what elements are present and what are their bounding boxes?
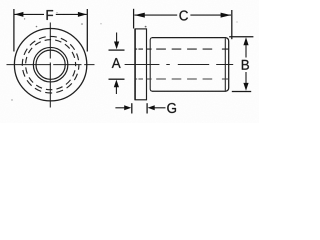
dimension B shaft bottom segment with down arrowhead	[245, 72, 247, 85]
side view flange	[135, 29, 146, 100]
dimension G left extension line	[131, 103, 133, 113]
label B	[242, 60, 249, 70]
dimension C left arrowhead	[134, 13, 144, 18]
side view body outline	[152, 38, 229, 92]
side view bore top hidden line	[135, 48, 228, 50]
dimension A bottom extension line	[109, 78, 125, 80]
dimension F left extension line	[13, 9, 15, 52]
front view bore circle	[36, 50, 65, 79]
dimension F right arrowhead	[78, 12, 87, 17]
dimension G left arrow (pointing right)	[115, 107, 124, 109]
front view hidden dashed circle (body OD)	[22, 36, 79, 93]
dimension G right arrow (pointing left)	[154, 107, 166, 109]
label A	[112, 58, 121, 68]
dimension C left extension line	[133, 9, 135, 29]
label C	[179, 10, 187, 20]
dimension B top extension line	[229, 36, 253, 38]
label G	[167, 103, 176, 113]
front view vertical center line	[49, 23, 51, 108]
front view bore chamfer circle	[33, 47, 68, 82]
dimension C line right segment	[190, 14, 231, 16]
front view hidden dashed circle (fillet tangent)	[26, 40, 76, 90]
dimension F left arrowhead	[15, 12, 24, 17]
dimension A bottom arrow (pointing up)	[115, 87, 117, 95]
side view end chamfer line	[224, 38, 226, 90]
front view horizontal center line	[7, 64, 95, 66]
dimension C right extension line	[231, 10, 233, 39]
dimension B shaft top segment with up arrowhead	[245, 44, 247, 58]
dimension G right extension line	[146, 103, 148, 113]
paper grain	[0, 0, 259, 123]
dimension B bottom extension line	[232, 91, 251, 93]
dimension F line right segment	[56, 13, 87, 15]
dimension C right arrowhead	[221, 13, 231, 18]
side view body junction line (fillet tangent)	[150, 38, 152, 92]
dimension A top arrow (pointing down)	[116, 33, 118, 44]
dimension C line left segment	[134, 14, 177, 16]
label F	[47, 10, 54, 20]
dimension F right extension line	[86, 9, 88, 52]
scan noise specks	[24, 18, 25, 19]
side view center line	[125, 64, 234, 66]
dimension A top extension line	[109, 49, 125, 51]
front view outer circle (flange OD)	[14, 28, 86, 100]
side view bore bottom hidden line	[135, 78, 228, 80]
dimension F line left segment	[15, 13, 45, 15]
